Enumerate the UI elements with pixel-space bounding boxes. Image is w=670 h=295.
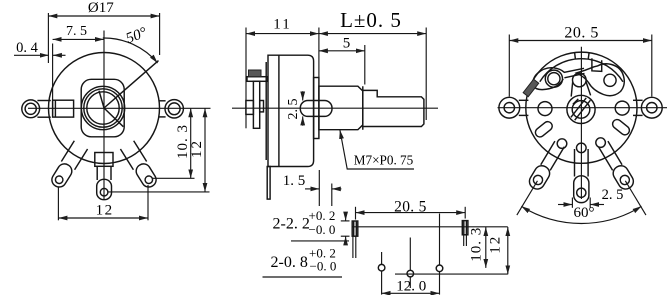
cover lip bbox=[265, 62, 267, 160]
ear left nub bbox=[246, 101, 254, 115]
element rivet top-right bbox=[604, 74, 616, 86]
svg-text:50°: 50° bbox=[124, 25, 149, 47]
body circle bbox=[49, 53, 160, 164]
ear rivet left bbox=[538, 102, 552, 116]
mounting plate bbox=[81, 79, 124, 137]
shaft circle bbox=[87, 92, 119, 124]
dim 50deg arc bbox=[103, 38, 158, 63]
vertical centerline bbox=[103, 31, 105, 200]
middle terminal bbox=[575, 149, 589, 177]
shaft mark ray down-right bbox=[104, 108, 123, 127]
svg-text:5: 5 bbox=[343, 36, 351, 52]
svg-text:0. 4: 0. 4 bbox=[16, 40, 39, 56]
vertical centerline bbox=[580, 47, 582, 199]
svg-text:2. 5: 2. 5 bbox=[286, 99, 301, 120]
svg-text:M7×P0. 75: M7×P0. 75 bbox=[354, 153, 414, 168]
dim 2.5 bbox=[302, 91, 304, 100]
wiper pivot ring bbox=[545, 70, 562, 87]
dim 60deg arc bbox=[521, 206, 641, 223]
dim 10.3 right bbox=[152, 177, 195, 179]
slot left bbox=[352, 221, 358, 236]
rim tick left bbox=[574, 53, 577, 60]
svg-text:12. 0: 12. 0 bbox=[396, 278, 426, 294]
knurl block bbox=[249, 70, 262, 77]
wiper arm bbox=[533, 68, 585, 90]
bushing ring outer bbox=[81, 86, 124, 129]
ear plate edge-on bbox=[253, 81, 259, 128]
shaft flat ray up-right 40deg bbox=[104, 61, 159, 108]
svg-text:7. 5: 7. 5 bbox=[66, 24, 87, 39]
right terminal bbox=[597, 140, 653, 219]
slot right bbox=[611, 118, 631, 137]
horizontal centerline bbox=[498, 107, 668, 109]
terminal edge-on bbox=[267, 167, 270, 200]
svg-text:11: 11 bbox=[273, 17, 291, 33]
ear rivet right bbox=[615, 101, 629, 115]
pin middle bbox=[407, 270, 414, 277]
pin left bbox=[378, 264, 385, 271]
rotor hub bar bbox=[300, 101, 332, 117]
dim 12 bottom bbox=[57, 187, 59, 221]
body outline bbox=[268, 55, 314, 166]
crimp tab hatched bbox=[523, 79, 539, 96]
svg-text:60°: 60° bbox=[574, 205, 595, 221]
centerline bbox=[232, 107, 438, 109]
shaft mark ray up-left bbox=[99, 91, 104, 108]
shaft slot chord bbox=[575, 100, 591, 120]
cover notch bbox=[592, 58, 602, 71]
slot height arrows bbox=[345, 213, 347, 221]
left terminal lug bbox=[49, 141, 88, 190]
pin right bbox=[436, 265, 443, 272]
svg-text:12: 12 bbox=[488, 235, 504, 254]
side cover rectangle bbox=[53, 100, 74, 117]
horizontal centerline bbox=[28, 107, 211, 109]
svg-text:1. 5: 1. 5 bbox=[283, 173, 306, 189]
slot row extension bbox=[352, 226, 508, 228]
dim 12 bbox=[507, 227, 509, 274]
bushing ring mid bbox=[84, 89, 122, 127]
middle pin row extension bbox=[395, 273, 508, 275]
right terminal lug bbox=[120, 141, 159, 190]
svg-text:10. 3: 10. 3 bbox=[469, 227, 485, 262]
middle terminal lug bbox=[97, 166, 111, 180]
right ear bbox=[641, 97, 662, 118]
boss bbox=[314, 78, 319, 139]
shaft bbox=[363, 86, 424, 130]
rim tick right bbox=[587, 53, 590, 60]
right ear bbox=[165, 100, 183, 118]
svg-text:2. 5: 2. 5 bbox=[602, 187, 624, 203]
left ear bbox=[499, 97, 520, 118]
cover rim line bbox=[278, 55, 280, 166]
svg-text:−0. 0: −0. 0 bbox=[310, 259, 337, 274]
top tab plate bbox=[247, 77, 267, 82]
svg-text:−0. 0: −0. 0 bbox=[309, 222, 336, 237]
svg-text:20. 5: 20. 5 bbox=[564, 24, 599, 41]
svg-text:12: 12 bbox=[96, 202, 114, 218]
slot right bbox=[462, 221, 468, 235]
wafer claw edge bbox=[577, 64, 625, 96]
dim 12 right bbox=[108, 191, 210, 193]
left terminal bbox=[510, 140, 566, 219]
body circle bbox=[526, 52, 637, 163]
left ear bbox=[22, 100, 40, 118]
svg-text:2-2. 2: 2-2. 2 bbox=[273, 216, 310, 233]
middle terminal anchor bbox=[95, 153, 113, 167]
threaded bushing bbox=[319, 86, 363, 130]
hub neck bbox=[573, 73, 587, 87]
cover rim inner arc bbox=[540, 59, 623, 82]
dim 2.5 terminal bbox=[571, 198, 573, 208]
slot left bbox=[534, 120, 554, 139]
dim 10.3 bbox=[485, 227, 487, 268]
svg-text:12: 12 bbox=[189, 139, 205, 158]
cover lip line bbox=[54, 100, 56, 117]
ear right nub bbox=[260, 101, 264, 112]
svg-text:Ø17: Ø17 bbox=[88, 0, 114, 16]
svg-text:L±0. 5: L±0. 5 bbox=[340, 8, 402, 32]
hub bbox=[567, 95, 595, 123]
svg-text:2-0. 8: 2-0. 8 bbox=[271, 254, 308, 271]
terminal rivets bbox=[557, 139, 567, 149]
